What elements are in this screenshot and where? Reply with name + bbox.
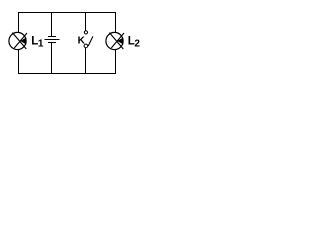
switch K blade [88,36,93,46]
battery B1 plate short bottom [48,42,56,44]
svg-text:1: 1 [38,39,44,50]
switch K wire lower [85,48,87,74]
battery B1 plate short top [48,36,56,38]
svg-text:K: K [78,36,86,47]
svg-text:2: 2 [134,39,140,50]
wire left upper [18,13,20,34]
switch K wire upper [85,13,87,31]
wire right lower [115,50,117,73]
switch K terminal bottom [84,44,88,48]
wire right upper [115,13,117,34]
wire top [18,12,116,14]
switch K terminal top [84,31,87,34]
battery B1 plate long [45,39,60,41]
lamp L1 [9,32,27,49]
battery B1 wire upper [51,13,53,37]
wire left lower [18,50,20,73]
battery B1 wire lower [51,43,53,74]
wire bottom [18,73,116,75]
lamp L2 [106,32,124,49]
